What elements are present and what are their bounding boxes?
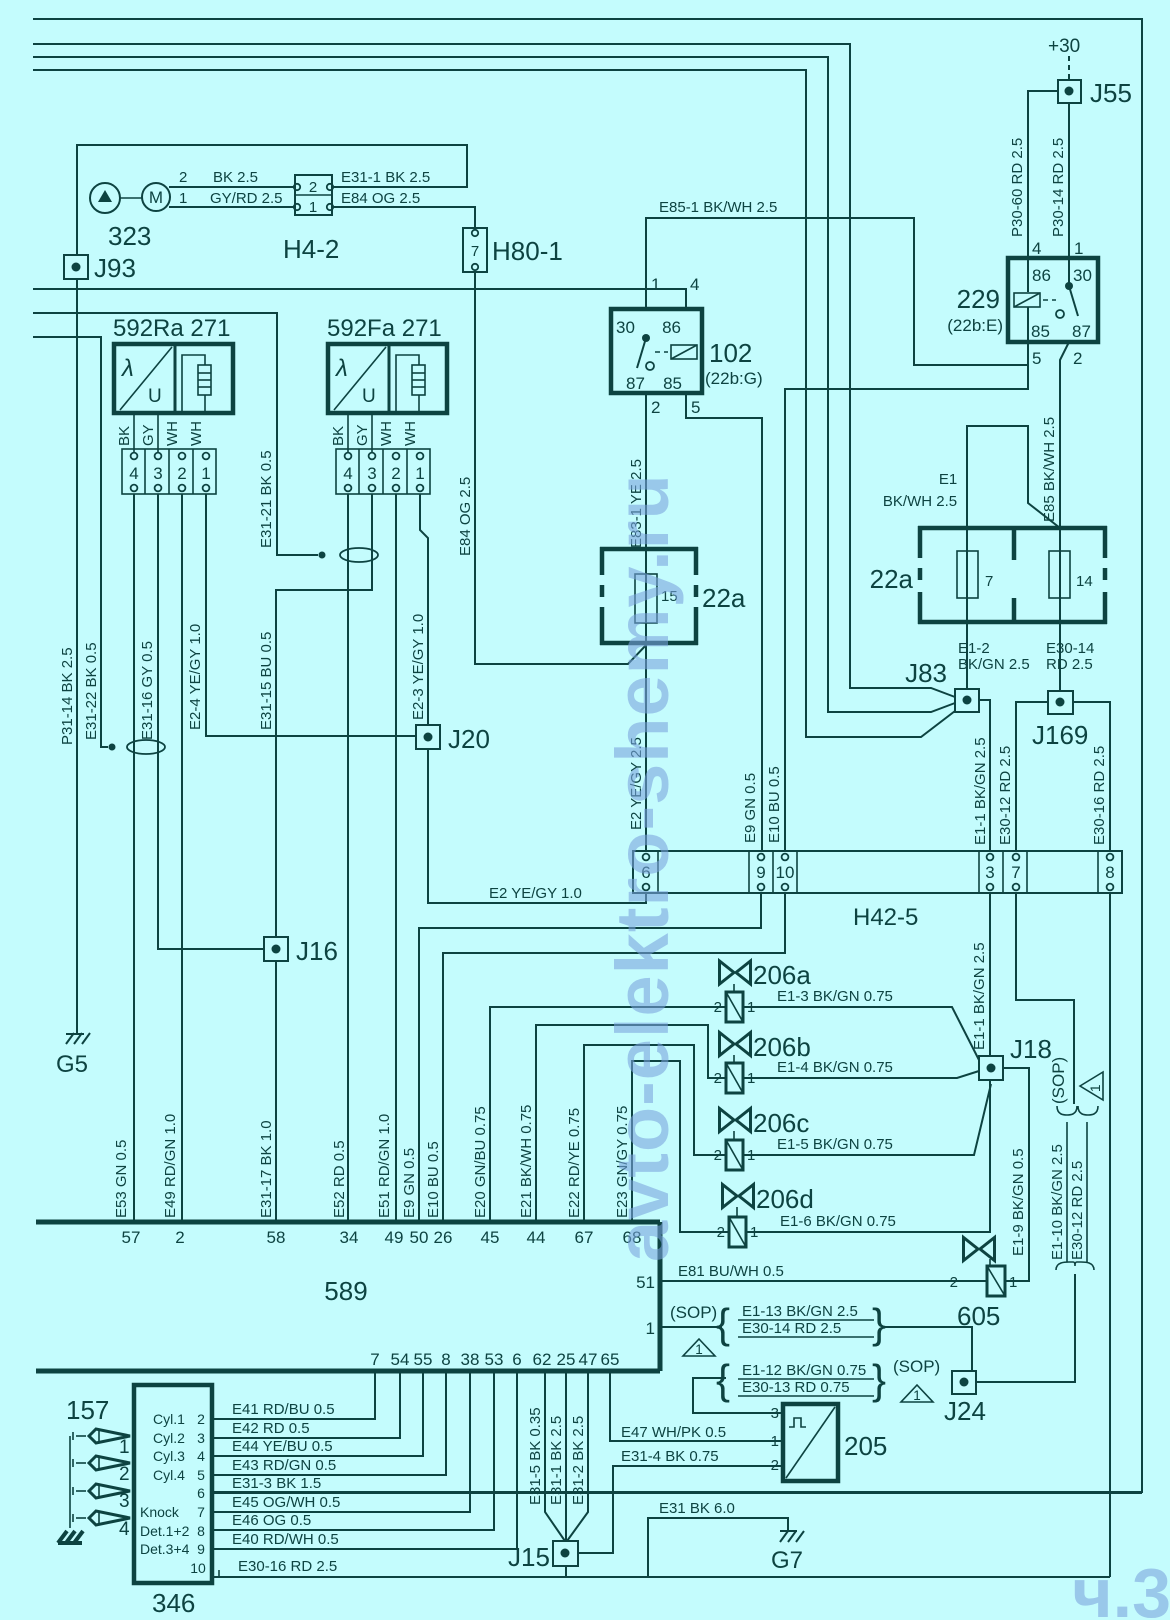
heater resistor inside 592Fa (418, 395, 420, 413)
svg-text:3: 3 (367, 464, 376, 483)
svg-text:J15: J15 (508, 1542, 550, 1572)
svg-text:Cyl.1: Cyl.1 (153, 1411, 185, 1427)
svg-text:346: 346 (152, 1588, 195, 1618)
wire J15 bottom to E31 BK 6.0 (565, 1566, 567, 1577)
svg-text:P31-14 BK 2.5: P31-14 BK 2.5 (59, 647, 76, 745)
shield oval at 592Ra wires (109, 744, 116, 751)
svg-text:205: 205 (844, 1431, 887, 1461)
svg-text:53: 53 (485, 1350, 504, 1369)
svg-text:1: 1 (646, 1319, 655, 1338)
wire E47 WH/PK 0.5 ECU 65 to 205 pin 1 (610, 1371, 783, 1441)
svg-text:M: M (149, 188, 163, 207)
wire E85-1 BK/WH 2.5 relay229 pin85 to relay102 pin30 (646, 218, 1027, 365)
svg-text:E1-2: E1-2 (958, 640, 990, 657)
svg-text:1: 1 (201, 464, 210, 483)
svg-text:25: 25 (557, 1350, 576, 1369)
wire 592Ra pin3 E31-16 GY 0.5 to J16 (158, 494, 264, 949)
svg-text:51: 51 (636, 1273, 655, 1292)
wire E84 OG 2.5 from H80-1 down to fuse 22a bottom joint (475, 272, 648, 664)
svg-text:(22b:G): (22b:G) (705, 369, 763, 388)
svg-text:2: 2 (950, 1274, 958, 1291)
svg-text:4: 4 (690, 275, 699, 294)
wire 592Fa pin1 E2-3 YE/GY 1.0 to J20 (420, 494, 428, 725)
svg-text:GY: GY (354, 424, 371, 446)
wire bus line 5 to relay 102 pin 4 (33, 289, 686, 309)
fuse 15 element (635, 574, 678, 623)
node J15 (508, 1541, 578, 1572)
svg-text:E30-16 RD 2.5: E30-16 RD 2.5 (238, 1558, 337, 1575)
svg-text:(SOP): (SOP) (670, 1303, 717, 1322)
wire 592Ra pin1 E2-4 YE/GY 1.0 to J20 (206, 494, 416, 736)
knock sensor box 346 (134, 1385, 212, 1618)
wire ECU pin 1 through SOP labels to J24 (660, 1326, 722, 1328)
svg-text:45: 45 (481, 1228, 500, 1247)
svg-text:U: U (362, 386, 376, 407)
svg-text:E30-14 RD 2.5: E30-14 RD 2.5 (742, 1320, 841, 1337)
svg-text:E1-1 BK/GN 2.5: E1-1 BK/GN 2.5 (972, 737, 989, 845)
svg-text:E84 OG 2.5: E84 OG 2.5 (457, 477, 474, 556)
wire from brace down to J24 right side (976, 1274, 1075, 1382)
svg-text:102: 102 (709, 338, 752, 368)
injector 206b (714, 1032, 811, 1093)
warning triangle 1 sideways near J18 (1080, 1072, 1103, 1100)
wire E1-2 BK/GN 2.5 fuse 7 to J83 (966, 622, 968, 689)
svg-text:E51 RD/GN 1.0: E51 RD/GN 1.0 (376, 1114, 393, 1218)
svg-text:8: 8 (441, 1350, 450, 1369)
svg-text:4: 4 (129, 464, 138, 483)
svg-text:9: 9 (197, 1541, 205, 1557)
svg-text:E9 GN 0.5: E9 GN 0.5 (742, 773, 759, 843)
svg-text:J93: J93 (94, 253, 136, 283)
svg-text:10: 10 (190, 1560, 206, 1576)
wire E2 YE/GY 1.0 from J20 down to H42-5 pin 6 (428, 749, 646, 903)
svg-text:E1: E1 (939, 471, 957, 488)
svg-text:BK: BK (116, 426, 133, 446)
svg-text:3: 3 (119, 1491, 130, 1512)
wire motor pin 1 to H4-2 (169, 206, 295, 208)
svg-text:1: 1 (771, 1433, 779, 1450)
relay 229 (947, 239, 1098, 368)
warning triangle 1 first group (683, 1339, 715, 1357)
svg-text:323: 323 (108, 221, 151, 251)
svg-text:H4-2: H4-2 (283, 234, 339, 264)
node J16 (264, 936, 338, 966)
knock sensor 2 (73, 1456, 130, 1485)
injector 206a (714, 960, 812, 1022)
svg-text:J20: J20 (448, 724, 490, 754)
chassis ground of sensors (58, 1531, 83, 1543)
svg-text:J83: J83 (905, 658, 947, 688)
node J20 (416, 724, 490, 754)
svg-text:GY/RD 2.5: GY/RD 2.5 (210, 190, 283, 207)
wire fuse 22a to H42-5 pin 6 (645, 623, 647, 851)
wire E31-5 BK 0.35 ECU 62 to J15 (545, 1371, 565, 1541)
svg-text:G7: G7 (771, 1547, 803, 1574)
svg-text:E30-14: E30-14 (1046, 640, 1094, 657)
wire E31-17 BK 1.0 J16 to ECU pin 58 (275, 961, 277, 1222)
brace top of E1-10/E30-12 labels (1057, 1106, 1077, 1115)
svg-text:49: 49 (385, 1228, 404, 1247)
svg-text:2: 2 (177, 464, 186, 483)
svg-text:G5: G5 (56, 1051, 88, 1078)
svg-text:P30-60 RD 2.5: P30-60 RD 2.5 (1009, 138, 1026, 237)
lambda sensor 592Ra 271 (113, 315, 233, 413)
svg-text:26: 26 (434, 1228, 453, 1247)
ground G7 (771, 1531, 804, 1574)
relay 102 (611, 275, 763, 417)
svg-text:30: 30 (616, 318, 635, 337)
wire E31-3 BK 1.5 ground bus (212, 1492, 1142, 1494)
svg-text:E30-12 RD 2.5: E30-12 RD 2.5 (1069, 1161, 1086, 1260)
wire H42-5 pin 9 to ECU pin 50 (419, 893, 761, 1222)
bracket group E1-12/E30-13 (716, 1356, 886, 1403)
svg-text:E1-1 BK/GN 2.5: E1-1 BK/GN 2.5 (971, 942, 988, 1050)
svg-text:206d: 206d (756, 1184, 814, 1214)
injector 605 (950, 1238, 1018, 1332)
svg-text:1: 1 (695, 1342, 703, 1357)
svg-text:E49 RD/GN 1.0: E49 RD/GN 1.0 (162, 1114, 179, 1218)
svg-text:J24: J24 (944, 1396, 986, 1426)
bracket group E1-13/E30-14 (716, 1300, 886, 1347)
fuse box 22a left (600, 547, 746, 645)
svg-text:J18: J18 (1010, 1034, 1052, 1064)
svg-text:E53 GN 0.5: E53 GN 0.5 (113, 1140, 130, 1218)
svg-text:ч.3: ч.3 (1072, 1554, 1170, 1620)
wire H42-5 pin 7 to E1-10/E30-12 brace (1016, 893, 1074, 1104)
svg-text:4: 4 (1032, 239, 1041, 258)
svg-text:592Fa 271: 592Fa 271 (327, 315, 442, 342)
svg-text:87: 87 (1072, 322, 1091, 341)
svg-text:4: 4 (197, 1448, 205, 1464)
fuse 7 element (957, 528, 993, 622)
wire E21 BK/WH 0.75 206b pin2 to ECU pin 44 (536, 1025, 726, 1222)
svg-text:E85 BK/WH 2.5: E85 BK/WH 2.5 (1041, 417, 1058, 522)
svg-text:WH: WH (402, 421, 419, 446)
svg-text:(SOP): (SOP) (1049, 1057, 1068, 1104)
converter 205 (771, 1404, 888, 1481)
svg-text:BK: BK (330, 426, 347, 446)
node J93 (64, 253, 136, 283)
svg-text:58: 58 (267, 1228, 286, 1247)
svg-text:65: 65 (601, 1350, 620, 1369)
svg-text:85: 85 (663, 374, 682, 393)
svg-text:86: 86 (662, 318, 681, 337)
svg-text:E1-4 BK/GN 0.75: E1-4 BK/GN 0.75 (777, 1059, 893, 1076)
svg-text:2: 2 (391, 464, 400, 483)
svg-text:WH: WH (188, 421, 205, 446)
wire E30-12 RD 2.5 J169 to H42-5 pin 7 (1016, 702, 1048, 851)
svg-text:1: 1 (913, 1388, 921, 1403)
wire P30-60 RD 2.5 J55 to relay 229 pin 86 (1028, 91, 1058, 258)
svg-text:Det.3+4: Det.3+4 (140, 1541, 190, 1557)
svg-text:1: 1 (179, 190, 187, 207)
wire E1-1 BK/GN 2.5 H42-5 pin 3 to J18 (989, 893, 991, 1056)
svg-text:14: 14 (1076, 573, 1093, 590)
svg-text:62: 62 (533, 1350, 552, 1369)
wire bus line 4 to J83 lower diagonal (33, 70, 955, 737)
svg-text:E47 WH/PK 0.5: E47 WH/PK 0.5 (621, 1424, 726, 1441)
wire E31-2 BK 2.5 ECU 47 to J15 (567, 1371, 588, 1541)
wire P31-14 BK 2.5 J93 to ground G5 (76, 279, 78, 1034)
relay 229 coil (1014, 293, 1040, 307)
svg-text:{: { (716, 1356, 730, 1403)
wires 592Fa sensor to connector (347, 413, 349, 452)
svg-text:(SOP): (SOP) (893, 1357, 940, 1376)
svg-text:E85-1 BK/WH 2.5: E85-1 BK/WH 2.5 (659, 199, 777, 216)
wire E31-4 BK 0.75 205 pin 2 to ground bus (613, 1466, 783, 1553)
svg-text:206a: 206a (753, 960, 811, 990)
wire P30-14 RD 2.5 J55 to relay 229 pin 30 (1068, 103, 1070, 258)
svg-text:E30-12 RD 2.5: E30-12 RD 2.5 (997, 746, 1014, 845)
injector 206d (717, 1184, 814, 1247)
svg-text:}: } (872, 1356, 886, 1403)
svg-text:E2 YE/GY 1.0: E2 YE/GY 1.0 (489, 885, 582, 902)
svg-text:Det.1+2: Det.1+2 (140, 1523, 190, 1539)
svg-text:E1-9 BK/GN 0.5: E1-9 BK/GN 0.5 (1010, 1148, 1027, 1256)
wire bus line 3 to J83 (33, 57, 955, 712)
svg-text:2: 2 (119, 1464, 130, 1485)
wire E43 RD/GN 0.5 to ECU 8 (212, 1371, 446, 1475)
svg-text:86: 86 (1032, 266, 1051, 285)
svg-text:E30-16 RD 2.5: E30-16 RD 2.5 (1091, 746, 1108, 845)
ground G5 (56, 1033, 90, 1078)
injector 206c (714, 1108, 810, 1170)
svg-text:7: 7 (471, 243, 479, 260)
svg-text:E31-4 BK 0.75: E31-4 BK 0.75 (621, 1448, 719, 1465)
svg-text:57: 57 (122, 1228, 141, 1247)
wire E1-5 BK/GN 0.75 206c to J18 (743, 1084, 991, 1155)
svg-text:E81 BU/WH 0.5: E81 BU/WH 0.5 (678, 1263, 784, 1280)
svg-text:87: 87 (626, 374, 645, 393)
wire motor pin 2 to H4-2 (169, 186, 295, 188)
node J18 (979, 1034, 1052, 1080)
connector 592Fa pins 4 3 2 1 (336, 449, 430, 494)
wire 592Fa pin3 to E31-15 BU 0.5 down to J16 (276, 494, 372, 937)
wire relay229 pin5 junction to H42-5 pin 10 (785, 342, 1028, 851)
svg-text:λ: λ (334, 355, 348, 382)
svg-text:Cyl.4: Cyl.4 (153, 1467, 185, 1483)
svg-text:E1-13 BK/GN 2.5: E1-13 BK/GN 2.5 (742, 1303, 858, 1320)
svg-text:E22 RD/YE 0.75: E22 RD/YE 0.75 (566, 1108, 583, 1218)
wire E81 BU/WH 0.5 ECU 51 to injector 605 (660, 1280, 987, 1282)
svg-text:2: 2 (197, 1411, 205, 1427)
wire J15 right branch up to E31-3 bus (578, 1466, 613, 1553)
svg-text:E1-12 BK/GN 0.75: E1-12 BK/GN 0.75 (742, 1362, 866, 1379)
node J55 (1048, 36, 1132, 108)
connector strip H42-5 (633, 851, 1122, 931)
svg-text:206b: 206b (753, 1032, 811, 1062)
wire E1-1 BK/GN 2.5 J83 to H42-5 pin 3 (979, 700, 990, 851)
svg-text:J16: J16 (296, 936, 338, 966)
svg-text:E40 RD/WH 0.5: E40 RD/WH 0.5 (232, 1531, 339, 1548)
brace bottom merging into one wire (1056, 1262, 1094, 1270)
svg-text:206c: 206c (753, 1108, 809, 1138)
svg-text:50: 50 (410, 1228, 429, 1247)
svg-text:(22b:E): (22b:E) (947, 316, 1003, 335)
svg-text:2: 2 (175, 1228, 184, 1247)
wire relay102 pin2 E83-1 YE 2.5 to fuse 22a (645, 393, 647, 574)
svg-text:E31-17 BK 1.0: E31-17 BK 1.0 (258, 1120, 275, 1218)
svg-text:229: 229 (957, 284, 1000, 314)
svg-text:E41 RD/BU 0.5: E41 RD/BU 0.5 (232, 1401, 335, 1418)
node J24 (944, 1371, 986, 1426)
svg-text:5: 5 (197, 1467, 205, 1483)
wire bus line 2 to J83 (33, 44, 955, 697)
svg-text:E1-6 BK/GN 0.75: E1-6 BK/GN 0.75 (780, 1213, 896, 1230)
svg-text:5: 5 (1032, 349, 1041, 368)
svg-text:E31 BK 6.0: E31 BK 6.0 (659, 1500, 735, 1517)
wire E23 GN/GY 0.75 206d pin2 to ECU pin 68 (632, 1061, 729, 1232)
svg-text:E45 OG/WH 0.5: E45 OG/WH 0.5 (232, 1494, 340, 1511)
pump and motor 323 (90, 183, 170, 251)
svg-text:1: 1 (119, 1437, 130, 1458)
svg-text:157: 157 (66, 1395, 109, 1425)
svg-text:+30: +30 (1048, 36, 1080, 57)
svg-text:85: 85 (1031, 322, 1050, 341)
wire E30-14 RD 2.5 fuse 14 to J169 (1059, 622, 1061, 691)
wire E30-16 RD 2.5 bottom bus to J169 column (212, 1576, 1110, 1578)
svg-text:4: 4 (343, 464, 352, 483)
svg-text:RD 2.5: RD 2.5 (1046, 656, 1093, 673)
svg-text:1: 1 (1074, 239, 1083, 258)
svg-text:E31-1 BK 2.5: E31-1 BK 2.5 (548, 1416, 565, 1505)
svg-text:E31-16 GY 0.5: E31-16 GY 0.5 (139, 641, 156, 740)
connector H4-2 (283, 175, 339, 264)
svg-text:55: 55 (414, 1350, 433, 1369)
svg-text:30: 30 (1073, 266, 1092, 285)
svg-text:{: { (716, 1300, 730, 1347)
wire E31-1 BK 2.5 ECU 25 to J15 (565, 1371, 567, 1541)
wire 592Fa pin4 to ECU pin 34 (347, 494, 349, 1222)
svg-text:589: 589 (324, 1276, 367, 1306)
svg-text:E84 OG 2.5: E84 OG 2.5 (341, 190, 420, 207)
wire E30-16 RD 2.5 J169 to H42-5 pin 8 (1073, 702, 1110, 851)
svg-text:34: 34 (340, 1228, 359, 1247)
svg-text:E31-21 BK 0.5: E31-21 BK 0.5 (258, 450, 275, 548)
svg-text:H80-1: H80-1 (492, 236, 563, 266)
svg-text:E31-2 BK 2.5: E31-2 BK 2.5 (570, 1416, 587, 1505)
svg-text:9: 9 (756, 863, 765, 882)
svg-text:E1-3 BK/GN 0.75: E1-3 BK/GN 0.75 (777, 988, 893, 1005)
svg-text:λ: λ (120, 355, 134, 382)
svg-text:E42 RD 0.5: E42 RD 0.5 (232, 1420, 310, 1437)
svg-text:7: 7 (370, 1350, 379, 1369)
svg-text:E2-3 YE/GY 1.0: E2-3 YE/GY 1.0 (410, 614, 427, 720)
svg-text:E43 RD/GN 0.5: E43 RD/GN 0.5 (232, 1457, 336, 1474)
svg-text:44: 44 (527, 1228, 546, 1247)
knock sensor 1 (73, 1429, 130, 1458)
relay 229 switch (1027, 258, 1029, 292)
wire sensor ground bus (69, 1436, 71, 1528)
svg-text:J55: J55 (1090, 78, 1132, 108)
svg-text:P30-14 RD 2.5: P30-14 RD 2.5 (1050, 138, 1067, 237)
ECU 589 box (36, 1222, 660, 1371)
svg-text:E20 GN/BU 0.75: E20 GN/BU 0.75 (472, 1106, 489, 1218)
relay 102 switch (642, 334, 650, 342)
svg-text:6: 6 (197, 1485, 205, 1501)
svg-text:E52 RD 0.5: E52 RD 0.5 (331, 1140, 348, 1218)
svg-text:2: 2 (179, 169, 187, 186)
svg-text:1: 1 (651, 275, 660, 294)
wire 592Fa pin2 to ECU pin 49 (395, 494, 397, 1222)
svg-text:E10 BU 0.5: E10 BU 0.5 (425, 1141, 442, 1218)
wire E1-4 BK/GN 0.75 206b to J18 (743, 1071, 979, 1078)
svg-text:2: 2 (309, 179, 317, 196)
svg-text:Knock: Knock (140, 1504, 180, 1520)
ECU top pin numbers (122, 1228, 642, 1247)
svg-text:E31-22 BK 0.5: E31-22 BK 0.5 (83, 642, 100, 740)
wire E44 YE/BU 0.5 to ECU 55 (212, 1371, 423, 1456)
wire relay229 pin2 E85 BK/WH 2.5 to fuse 22a right (1060, 342, 1069, 528)
svg-text:10: 10 (776, 863, 795, 882)
svg-text:8: 8 (1105, 863, 1114, 882)
svg-text:2: 2 (771, 1457, 779, 1474)
svg-text:BK 2.5: BK 2.5 (213, 169, 258, 186)
svg-text:592Ra 271: 592Ra 271 (113, 315, 230, 342)
svg-text:3: 3 (197, 1430, 205, 1446)
svg-text:E1-10 BK/GN 2.5: E1-10 BK/GN 2.5 (1049, 1144, 1066, 1260)
svg-text:47: 47 (579, 1350, 598, 1369)
svg-text:BK/WH 2.5: BK/WH 2.5 (883, 493, 957, 510)
wire H42-5 pin 8 down to bottom bus (1109, 893, 1111, 1577)
svg-text:54: 54 (391, 1350, 410, 1369)
svg-text:E31-15 BU 0.5: E31-15 BU 0.5 (258, 632, 275, 730)
svg-text:E31-5 BK 0.35: E31-5 BK 0.35 (527, 1407, 544, 1505)
svg-text:4: 4 (119, 1519, 130, 1540)
svg-text:E2-4 YE/GY 1.0: E2-4 YE/GY 1.0 (187, 624, 204, 730)
wire E20 GN/BU 0.75 206a pin2 to ECU pin 45 (490, 1007, 726, 1222)
svg-text:E1-5 BK/GN 0.75: E1-5 BK/GN 0.75 (777, 1136, 893, 1153)
svg-text:H42-5: H42-5 (853, 904, 918, 931)
wire E1 BK/WH 2.5 fuse 7 feed jog (967, 426, 1060, 528)
svg-text:2: 2 (651, 398, 660, 417)
node J83 (905, 658, 979, 712)
svg-text:U: U (148, 386, 162, 407)
wire E45 OG/WH 0.5 to ECU 38 (212, 1371, 470, 1512)
svg-text:38: 38 (461, 1350, 480, 1369)
svg-text:E10 BU 0.5: E10 BU 0.5 (766, 766, 783, 843)
svg-text:3: 3 (985, 863, 994, 882)
connector H80-1 (463, 228, 563, 272)
wire E31-21 BK 0.5 from left margin to shield oval (33, 313, 318, 555)
node J169 (1032, 691, 1088, 750)
svg-text:}: } (872, 1300, 886, 1347)
wire E1-3 BK/GN 0.75 206a to J18 (743, 1007, 979, 1060)
svg-text:Cyl.3: Cyl.3 (153, 1448, 185, 1464)
svg-text:avto-elektro-shemy.ru: avto-elektro-shemy.ru (601, 473, 684, 1262)
knock sensor 4 (73, 1511, 130, 1540)
wire H42-5 pin 10 to ECU pin 26 (443, 893, 785, 1222)
svg-text:2: 2 (1073, 349, 1082, 368)
svg-text:22a: 22a (702, 583, 746, 613)
svg-text:67: 67 (575, 1228, 594, 1247)
wire E1-9 BK/GN 0.5 J18 to injector 605 (1003, 1068, 1029, 1281)
wire E31-22 BK 0.5 from left margin to shield oval (33, 337, 108, 747)
wire E31-1 BK 2.5 loop from H4-2 pin 2 to J93 (77, 145, 467, 255)
wire E41 RD/BU 0.5 to ECU 7 (212, 1371, 375, 1419)
svg-text:8: 8 (197, 1523, 205, 1539)
fuse box 22a right (870, 526, 1107, 624)
svg-text:1: 1 (309, 199, 317, 216)
wire E46 OG 0.5 to ECU 53 (212, 1371, 494, 1530)
wire relay102 pin5 to H42-5 pin 9 (686, 393, 762, 851)
svg-text:E31-1 BK 2.5: E31-1 BK 2.5 (341, 169, 430, 186)
wire E22 RD/YE 0.75 206c pin2 to ECU pin 67 (584, 1045, 726, 1222)
wire E1-6 BK/GN 0.75 206d to J18 (746, 1080, 990, 1232)
ECU bottom pin numbers (370, 1273, 655, 1369)
warning triangle 1 second group (901, 1385, 933, 1403)
svg-text:22a: 22a (870, 564, 914, 594)
